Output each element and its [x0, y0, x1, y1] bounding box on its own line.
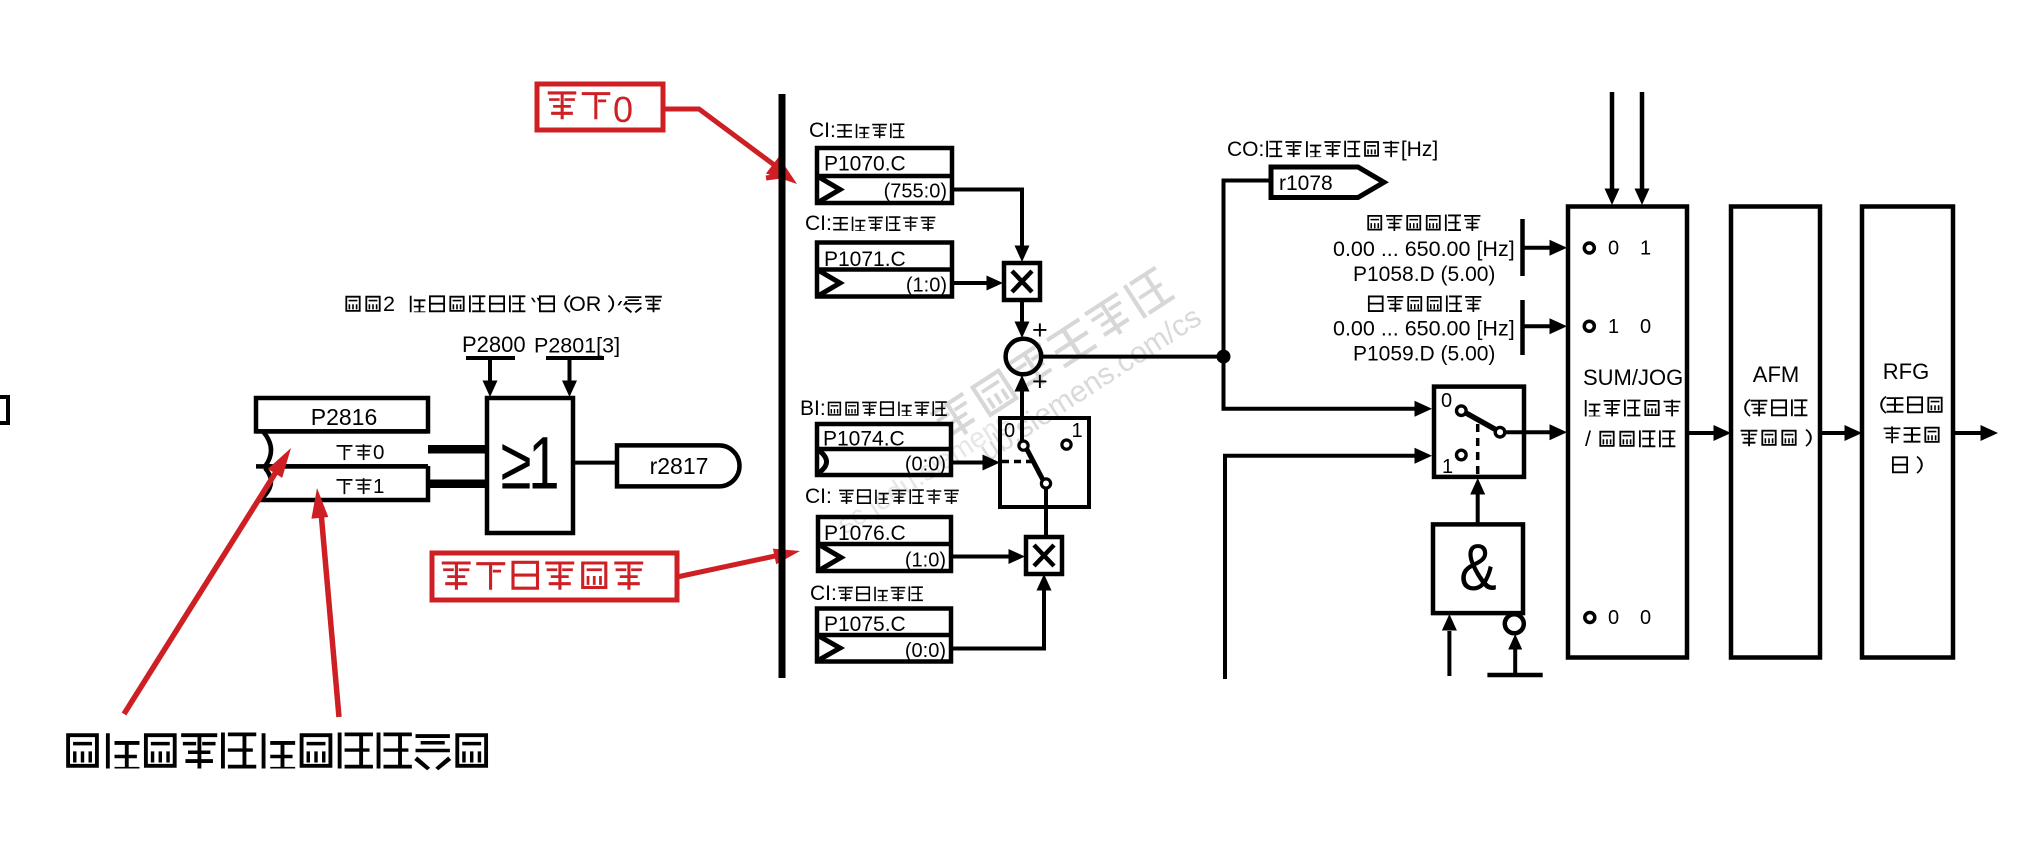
svg-text:1: 1 — [373, 475, 384, 498]
wire: top input arrow 2 into SUM/JOG — [1640, 92, 1645, 191]
svg-text:P1071.C: P1071.C — [824, 248, 906, 271]
switch 2 lever — [1466, 413, 1496, 430]
connector box P2816 with indices — [256, 398, 428, 431]
wire: adder up-input from jog disable switch — [1020, 390, 1024, 441]
dashed control line inside switch 2 — [1476, 424, 1480, 476]
wire: OR gate output to r2817 — [573, 461, 617, 465]
bracket bar forward jog — [1520, 219, 1525, 276]
wire: AFM output arrow to RFG — [1820, 431, 1847, 435]
connector input P1075.C (0:0) — [817, 609, 951, 662]
watermark: url text diagonal — [974, 300, 1207, 468]
svg-text:BI:: BI: — [800, 397, 826, 420]
SUM/JOG contact 0 0 — [1585, 613, 1595, 623]
dashed control line into switch 1 — [1002, 460, 1038, 464]
binector input P1074.C (0:0) — [817, 424, 951, 475]
svg-text:P2816: P2816 — [311, 404, 378, 430]
red callout leader arrow to P1076 chevron — [677, 556, 775, 577]
red callout leader arrow to P1070 chevron — [663, 109, 777, 167]
changeover switch 2 (SUM/JOG select) — [1434, 387, 1524, 477]
svg-text:CI:: CI: — [810, 582, 837, 605]
svg-text:(755:0): (755:0) — [884, 181, 947, 203]
label: title 具有2个输入的三重或(OR)元素 — [345, 296, 380, 312]
svg-text:(0:0): (0:0) — [905, 454, 946, 476]
svg-text:r2817: r2817 — [650, 453, 709, 479]
bracket bar reverse jog — [1520, 300, 1525, 355]
svg-text:+: + — [1032, 367, 1048, 397]
watermark: forum logo text diagonal — [929, 266, 1175, 445]
svg-text:(1:0): (1:0) — [905, 550, 946, 572]
thick vertical separator line — [779, 94, 786, 678]
svg-text:P1076.C: P1076.C — [824, 522, 906, 545]
wire: P1070 to multiplier 1 — [952, 190, 1022, 247]
svg-text:0: 0 — [1640, 316, 1651, 338]
connector input P1076.C (1:0) — [818, 517, 951, 571]
red callout box 等于0 — [537, 84, 663, 130]
svg-text:OR: OR — [569, 291, 601, 316]
RFG block — [1862, 207, 1953, 658]
svg-text:/: / — [1585, 426, 1591, 451]
svg-text:1: 1 — [1442, 456, 1453, 478]
svg-text:CI:: CI: — [805, 212, 832, 235]
svg-text:CI:: CI: — [809, 119, 836, 142]
svg-text:2: 2 — [383, 291, 395, 316]
svg-text:0.00 ... 650.00 [Hz]: 0.00 ... 650.00 [Hz] — [1333, 317, 1515, 341]
AND gate & block — [1433, 524, 1523, 613]
label 正向点动频率 — [1367, 215, 1480, 231]
svg-text:0: 0 — [1608, 238, 1619, 260]
label 数发生 — [1884, 426, 1940, 443]
left edge cropped mark — [0, 397, 8, 423]
svg-text:SUM/JOG: SUM/JOG — [1583, 365, 1683, 390]
wire: switch 2 output arrow to SUM/JOG box — [1505, 430, 1551, 434]
red arrow to 下标0 notch — [124, 464, 281, 714]
label 率修正） — [1741, 429, 1812, 447]
svg-text:P1059.D (5.00): P1059.D (5.00) — [1353, 343, 1495, 366]
wire: junction up to r1078 — [1224, 181, 1272, 357]
switch 1 lever — [1027, 450, 1043, 481]
wire: AND gate up to switch 2 with arrow — [1476, 493, 1480, 524]
svg-text:1: 1 — [1608, 316, 1619, 338]
red note text 两个固定值设置的开关量 — [66, 732, 488, 770]
parameter P2801 underline bar — [546, 356, 604, 360]
red arrow to 下标1 notch — [321, 512, 339, 717]
svg-text:&: & — [1459, 531, 1496, 604]
svg-text:0: 0 — [1608, 607, 1619, 629]
svg-text:(0:0): (0:0) — [905, 640, 946, 662]
output connector r2817 — [617, 445, 740, 486]
wire: P1075 right and up into X2 — [951, 589, 1044, 649]
wire: junction down then right to jog switch input 0 — [1224, 356, 1417, 409]
svg-text:1: 1 — [1640, 238, 1651, 260]
wire: RFG output arrow — [1953, 431, 1982, 435]
watermark: lower faint url — [831, 405, 1016, 540]
label 反向点动频率 — [1368, 296, 1481, 312]
binector row 下标0 — [256, 431, 428, 466]
wire: P1071 to multiplier 1 with arrow — [952, 281, 987, 285]
binector row 下标1 — [256, 466, 428, 500]
label （附加频 — [1744, 399, 1807, 417]
wire: 下标1 to OR gate — [428, 480, 487, 489]
wire: AND gate left input from below — [1447, 631, 1451, 676]
SUM/JOG contact 0 1 — [1584, 243, 1594, 253]
svg-text:CI:: CI: — [805, 485, 832, 508]
svg-text:P2800: P2800 — [462, 332, 526, 357]
svg-text:0: 0 — [613, 89, 633, 130]
connector input P1071.C (1:0) — [817, 243, 952, 297]
svg-text:0: 0 — [1441, 390, 1452, 412]
svg-text:[Hz]: [Hz] — [1401, 138, 1438, 161]
svg-text:P1075.C: P1075.C — [824, 613, 906, 636]
svg-text:RFG: RFG — [1883, 359, 1929, 384]
changeover switch 1 (additional setpoint disable) — [1000, 418, 1089, 507]
wire: top input arrow 1 into SUM/JOG — [1610, 92, 1615, 191]
connector input P1070.C (755:0) — [817, 148, 952, 203]
summing junction adder circle — [1006, 339, 1042, 375]
svg-text:0: 0 — [1640, 607, 1651, 629]
wire: reverse jog arrow into SUM/JOG box — [1523, 324, 1552, 328]
wire: forward jog arrow into SUM/JOG box — [1523, 246, 1552, 250]
output connector r1078 flag — [1271, 167, 1384, 198]
AND gate inverted input circle — [1505, 614, 1524, 633]
AFM block — [1731, 207, 1820, 658]
wire: corner line to jog switch input 1 and down cropped — [1225, 456, 1416, 679]
multiplier block X1 — [1004, 263, 1040, 300]
wire: X1 output down into adder — [1020, 300, 1024, 323]
wire: P2801 down arrow into OR gate — [568, 358, 572, 384]
SUM/JOG selection block — [1568, 207, 1687, 658]
wire: P2800 down arrow into OR gate — [488, 358, 492, 384]
wire: AND inverted input from below with T bar — [1513, 648, 1517, 674]
junction node dot — [1217, 350, 1230, 363]
svg-text:(1:0): (1:0) — [906, 275, 947, 297]
svg-text:r1078: r1078 — [1279, 172, 1333, 195]
parameter P2800 underline bar — [466, 356, 515, 360]
svg-text:0.00 ... 650.00 [Hz]: 0.00 ... 650.00 [Hz] — [1333, 237, 1515, 261]
svg-text:1: 1 — [1071, 420, 1082, 442]
wire: SUM/JOG output arrow to AFM — [1687, 431, 1716, 435]
wire: P1074 control arrow to switch 1 — [951, 461, 983, 465]
svg-text:0: 0 — [1004, 420, 1015, 442]
svg-text:0: 0 — [373, 441, 384, 464]
red small tick near arrowhead — [766, 175, 789, 178]
svg-text:AFM: AFM — [1753, 362, 1799, 387]
svg-text:≥1: ≥1 — [500, 422, 557, 504]
svg-text:P1070.C: P1070.C — [824, 153, 906, 176]
label （斜坡函 — [1880, 396, 1942, 414]
svg-text:P2801[3]: P2801[3] — [534, 334, 620, 358]
label 设定值总和 — [1585, 400, 1681, 417]
svg-text:P1074.C: P1074.C — [823, 428, 905, 451]
svg-text:P1058.D (5.00): P1058.D (5.00) — [1353, 263, 1495, 286]
wire: adder output to junction — [1041, 355, 1221, 359]
SUM/JOG contact 1 0 — [1584, 321, 1594, 331]
label 器） — [1892, 456, 1923, 474]
wire: P1076 to multiplier 2 with arrow — [951, 555, 1009, 559]
OR gate >=1 (triple OR element) — [487, 398, 573, 533]
multiplier block X2 — [1026, 537, 1062, 574]
wire: 下标0 to OR gate — [428, 445, 487, 454]
svg-text:CO:: CO: — [1227, 138, 1264, 161]
wire: switch 1 pivot down to X2 — [1044, 488, 1048, 537]
red callout box 等于端子给定 — [432, 553, 677, 600]
